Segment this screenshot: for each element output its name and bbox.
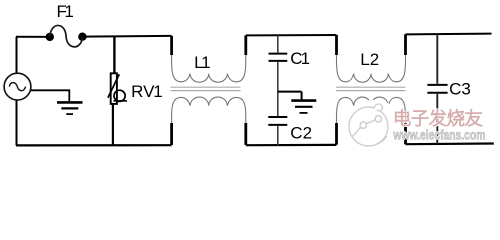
svg-text:L2: L2 — [360, 50, 379, 69]
svg-text:L1: L1 — [194, 53, 210, 72]
svg-text:C2: C2 — [290, 123, 312, 142]
svg-text:C1: C1 — [290, 49, 310, 68]
svg-text:C3: C3 — [449, 80, 471, 99]
svg-text:RV1: RV1 — [131, 82, 163, 101]
svg-text:F1: F1 — [57, 2, 74, 21]
svg-text:www.elecfans.com: www.elecfans.com — [393, 126, 486, 142]
